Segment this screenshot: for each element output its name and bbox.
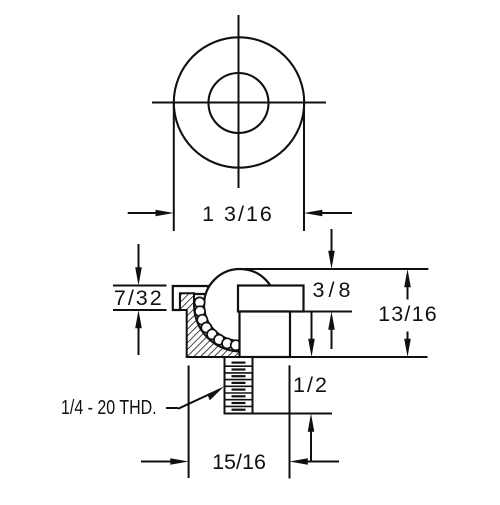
- top view: horizontal centerline: [152, 102, 326, 104]
- bearing ball 5: [207, 329, 217, 339]
- body rectangle: [240, 312, 291, 358]
- svg-text:1/4 - 20 THD.: 1/4 - 20 THD.: [61, 395, 157, 418]
- stud thread lines: [225, 366, 253, 406]
- dim 15/16 right extension line: [289, 365, 291, 478]
- extension line right (circle tangent): [303, 103, 305, 232]
- top view: outer circle: [174, 37, 304, 167]
- extension line left (circle tangent): [173, 103, 175, 232]
- leader tail: [166, 407, 178, 409]
- cup (hatched section): [180, 293, 240, 357]
- dim 7/32 upper stub line: [113, 285, 167, 287]
- bearing ball 2: [195, 306, 205, 316]
- top view: vertical centerline: [238, 15, 240, 188]
- leader line with arrow: [178, 386, 224, 408]
- dim 15/16 right arrow: [290, 458, 340, 465]
- bearing ball 3: [197, 315, 207, 325]
- dim 3/8 down arrow: [328, 229, 335, 269]
- dim 1/2 up arrow: [308, 414, 315, 462]
- flange bottom line + extension right: [238, 311, 352, 313]
- dim 1 3/16 left arrow: [128, 210, 174, 217]
- threaded stud outline: [225, 357, 253, 414]
- bearing ball 7: [222, 338, 232, 348]
- cap (left flange lip, white outline): [173, 286, 208, 310]
- stud thread dashes: [232, 363, 246, 410]
- dim 3/8 up arrow: [328, 312, 335, 350]
- dim 7/32 up arrow: [135, 310, 142, 355]
- right flange rectangle: [238, 286, 304, 312]
- dim 1/2 down arrow: [308, 312, 315, 358]
- svg-text:1/2: 1/2: [293, 373, 329, 397]
- dim 13/16 up arrow: [404, 269, 411, 300]
- svg-text:13/16: 13/16: [378, 302, 438, 326]
- dim 13/16 down arrow: [404, 332, 411, 358]
- dim 7/32 lower stub line: [113, 309, 167, 311]
- top view: inner circle: [209, 73, 269, 133]
- bearing ball 1: [195, 297, 205, 307]
- big ball: [204, 269, 276, 341]
- bearing ball 8: [231, 340, 241, 350]
- svg-text:7/32: 7/32: [114, 286, 164, 310]
- stud bottom line + extension right: [225, 413, 333, 415]
- dim 1 3/16 right arrow: [304, 210, 352, 217]
- dim 15/16 left arrow: [141, 458, 189, 465]
- svg-text:3/8: 3/8: [313, 278, 355, 302]
- bearing ball 6: [214, 335, 224, 345]
- housing bottom line + extension right: [187, 356, 428, 358]
- bearing ball 4: [201, 323, 211, 333]
- svg-text:15/16: 15/16: [212, 450, 266, 474]
- svg-text:1 3/16: 1 3/16: [202, 202, 274, 226]
- section: ball top extension line: [242, 268, 428, 270]
- dim 15/16 left extension line: [188, 366, 190, 479]
- dim 7/32 down arrow: [135, 244, 142, 286]
